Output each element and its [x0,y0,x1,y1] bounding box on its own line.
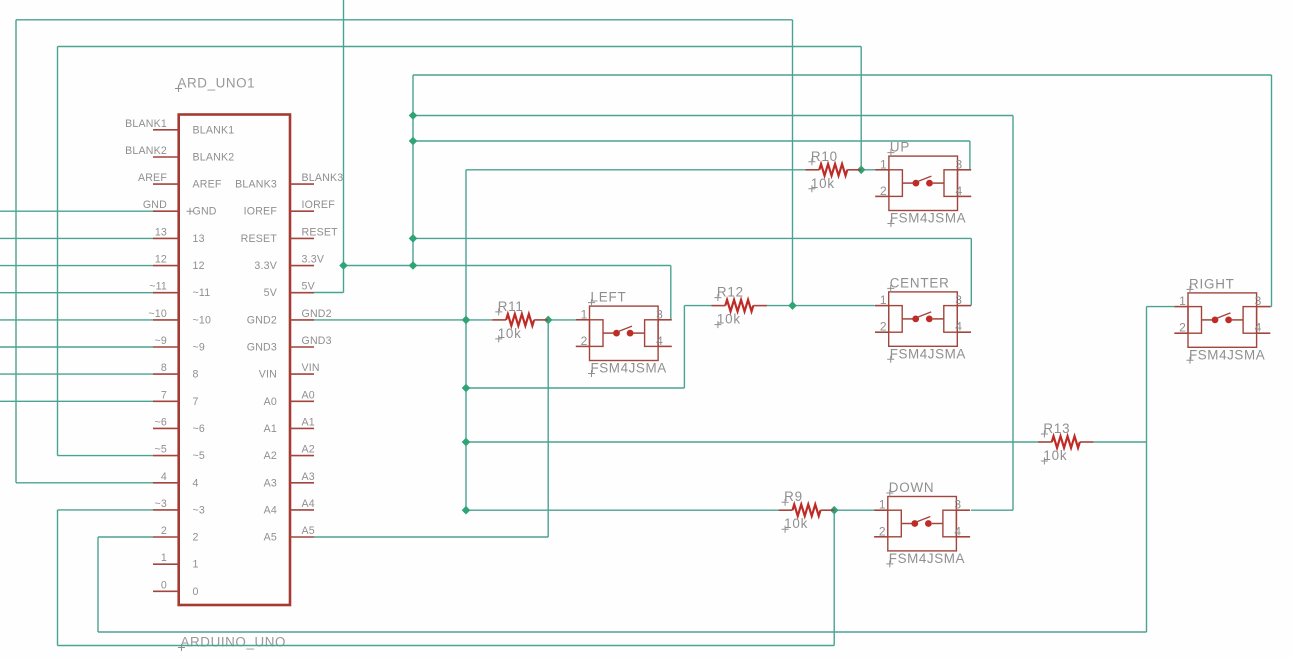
svg-text:4: 4 [656,334,663,348]
svg-text:A0: A0 [302,389,315,401]
part origin cross near GND pin [187,208,194,215]
label ARD_UNO1 [175,76,255,93]
svg-text:BLANK2: BLANK2 [193,152,235,164]
svg-text:GND2: GND2 [302,308,332,320]
pin numbers LEFT [581,307,663,348]
pin numbers RIGHT [1179,294,1261,335]
svg-text:IOREF: IOREF [302,199,336,211]
svg-text:12: 12 [193,260,205,272]
label ARDUINO_UNO [178,635,286,652]
label CENTER [887,275,949,292]
wire net CENTER: vertical x=16 [15,20,17,483]
pin 13 (left) stub [153,237,179,239]
svg-text:BLANK3: BLANK3 [302,172,344,184]
svg-text:R12: R12 [717,285,744,300]
label R11 [495,299,523,316]
IC ARD_UNO1 Arduino UNO symbol body [179,115,290,606]
junction 5V y238 [409,234,418,243]
svg-text:~5: ~5 [155,444,167,456]
switch RIGHT FSM4JSMA [1174,293,1270,347]
wire net 5V: vertical x=969.9 down to UP.3 [969,141,971,170]
svg-text:A2: A2 [302,444,315,456]
wire net CENTER: vertical x=792.5 down to R12/CENTER.1 [792,20,794,306]
svg-text:~9: ~9 [193,342,205,354]
wire net GND: horizontal y=388 [466,387,684,389]
pin 4 (left) stub [153,482,179,484]
wire net GND: horizontal y=442 to R13 [466,441,1038,443]
pin BLANK2 (left) stub [153,156,179,158]
svg-text:3.3V: 3.3V [254,260,277,272]
wire net GND: horizontal y=510.2 to R9 [466,509,779,511]
pin BLANK3 (right) stub [290,183,314,185]
wire net 5V: vertical x=1271.5 down to RIGHT.3 [1271,75,1273,307]
wire net RIGHT: R13 right to vertical x=1146.5 [1094,441,1147,443]
value 10k (R11) [495,326,522,343]
value 10k (R12) [714,312,741,329]
value 10k (R9) [782,516,809,533]
svg-text:4: 4 [956,184,963,198]
wire net UP: top horizontal y=46.5 [58,46,862,48]
pin 12 (left) stub [153,265,179,267]
svg-text:R10: R10 [811,149,838,164]
wire net 5V: horizontal y=75 to RIGHT.3 [413,74,1272,76]
wire net RIGHT: vertical x=98 down [97,537,99,632]
svg-text:8: 8 [193,369,199,381]
svg-text:DOWN: DOWN [889,480,935,495]
pin 8 (left) stub [153,373,179,375]
wire net GND: horizontal from pin GND2 [314,319,492,321]
svg-text:~3: ~3 [193,504,205,516]
wire net LEFT: horizontal into LEFT pin 1 [548,319,576,321]
junction 5V y141 [409,137,418,146]
wire net DOWN: vertical x=57.5 down [57,510,59,646]
svg-text:UP: UP [890,140,910,155]
junction 5V y265 [409,261,418,270]
wire net LEFT: vertical x=548.2 up to R11/LEFT.1 [547,320,549,537]
svg-text:RESET: RESET [302,226,339,238]
svg-text:7: 7 [161,389,167,401]
pin 0 (left) stub [153,590,179,592]
wire net UP: pin ~5 horizontal [58,455,154,457]
resistor R9 [779,504,835,516]
svg-text:FSM4JSMA: FSM4JSMA [591,361,667,376]
pin A3 (right) stub [290,482,314,484]
svg-text:4: 4 [193,477,199,489]
svg-text:LEFT: LEFT [591,290,627,305]
switch DOWN FSM4JSMA [874,497,970,551]
svg-text:~10: ~10 [193,314,212,326]
wire net DOWN: vertical x=834.2 up to R9/DOWN.1 [833,510,835,645]
svg-text:1: 1 [161,552,167,564]
svg-text:1: 1 [880,293,887,307]
svg-text:IOREF: IOREF [244,206,278,218]
junction CENTER net R12/CENTER.1 [788,301,797,310]
wire net DOWN: R9 right to DOWN pin 1 [834,509,874,511]
svg-text:VIN: VIN [259,369,277,381]
junction GND y510 [462,506,471,515]
svg-text:10k: 10k [811,176,835,191]
svg-text:2: 2 [193,532,199,544]
wire net D9 from left edge to pin ~9 [0,346,153,348]
wire net LEFT: pin A5 horizontal [314,536,548,538]
svg-text:4: 4 [955,320,962,334]
svg-text:GND3: GND3 [302,335,332,347]
svg-text:A5: A5 [264,532,277,544]
wire net DOWN: bottom horizontal y=645.5 [58,645,835,647]
svg-text:0: 0 [193,586,199,598]
svg-text:3.3V: 3.3V [302,254,325,266]
switch UP FSM4JSMA [875,156,971,210]
value FSM4JSMA (DOWN) [886,551,965,568]
pin GND (left) stub [153,210,179,212]
wire net D7 from left edge to pin 7 [0,400,153,402]
svg-text:~11: ~11 [149,281,167,293]
svg-text:12: 12 [155,254,167,266]
svg-text:10k: 10k [1043,448,1067,463]
pin 1 (left) stub [153,563,179,565]
junction 5V y115 [409,111,418,120]
junction GND at GND2 row [462,316,471,325]
wire net DOWN: pin ~3 horizontal [58,509,154,511]
svg-text:BLANK1: BLANK1 [125,118,167,130]
value FSM4JSMA (RIGHT) [1187,347,1266,364]
resistor R12 [711,300,767,312]
svg-text:R11: R11 [498,299,524,314]
wire net UP: vertical x=57.5 [57,47,59,456]
svg-text:CENTER: CENTER [890,275,950,290]
svg-text:A4: A4 [264,504,277,516]
resistor R10 [805,164,861,176]
svg-text:3: 3 [954,498,961,512]
resistor R13 [1038,436,1094,448]
wire net GND from left edge to pin GND [0,210,153,212]
svg-text:~3: ~3 [155,498,167,510]
svg-text:AREF: AREF [138,172,167,184]
svg-text:2: 2 [1179,321,1186,335]
svg-text:R13: R13 [1043,421,1070,436]
resistor R11 [492,314,548,326]
svg-text:1: 1 [879,498,886,512]
svg-text:R9: R9 [784,489,803,504]
svg-text:3: 3 [956,157,963,171]
pin numbers DOWN [879,498,961,539]
wire net GND: vertical rail x=466 [465,170,467,510]
svg-text:GND2: GND2 [247,314,277,326]
wire net CENTER: top horizontal y=19.8 [16,19,793,21]
wire net UP: R10 right to UP pin 1 [861,169,875,171]
wire net GND: horizontal y=305.6 to R12 [684,305,711,307]
svg-text:5V: 5V [264,287,278,299]
wire net 5V: horizontal y=238.4 to CENTER.3 [413,237,971,239]
wire net 5V: horizontal y=115.5 to DOWN.3 [413,115,1013,117]
svg-text:RESET: RESET [241,233,278,245]
label R10 [808,149,837,166]
svg-text:13: 13 [193,233,205,245]
svg-text:1: 1 [581,307,588,321]
pin ~5 (left) stub [153,455,179,457]
svg-text:2: 2 [581,334,588,348]
svg-text:FSM4JSMA: FSM4JSMA [890,346,966,361]
pin numbers UP [880,157,962,198]
svg-text:10k: 10k [717,312,741,327]
svg-text:ARDUINO_UNO: ARDUINO_UNO [181,635,287,650]
svg-text:10k: 10k [784,516,808,531]
svg-text:AREF: AREF [193,179,222,191]
svg-text:~10: ~10 [148,308,167,320]
svg-text:FSM4JSMA: FSM4JSMA [889,551,965,566]
pin ~10 (left) stub [153,319,179,321]
junction GND y388 [462,384,471,393]
pin A1 (right) stub [290,427,314,429]
label RIGHT [1187,276,1235,293]
pin ~3 (left) stub [153,509,179,511]
pin 3.3V (right) stub [290,265,314,267]
wire net RIGHT: vertical x=1146.5 up to RIGHT.1 [1146,307,1148,632]
value 10k (R13) [1041,448,1068,465]
label DOWN [886,480,934,497]
wire net RIGHT: horizontal into RIGHT pin 1 [1147,306,1175,308]
svg-text:2: 2 [879,524,886,538]
wire net CENTER: R12 right to junction [767,305,792,307]
pin A4 (right) stub [290,509,314,511]
wire net CENTER: pin 4 horizontal [16,482,153,484]
svg-text:4: 4 [161,471,167,483]
svg-text:A0: A0 [264,396,277,408]
pin BLANK1 (left) stub [153,129,179,131]
wire net 5V: vertical x=343.5 from top edge [343,0,345,293]
svg-text:VIN: VIN [302,362,320,374]
value FSM4JSMA (LEFT) [588,361,667,378]
svg-text:BLANK1: BLANK1 [193,124,235,136]
svg-text:A1: A1 [302,416,315,428]
svg-text:0: 0 [161,579,167,591]
wire net 5V: vertical x=413 [412,75,414,266]
svg-text:A3: A3 [302,471,315,483]
svg-text:BLANK2: BLANK2 [125,145,167,157]
svg-text:GND: GND [193,206,217,218]
svg-text:8: 8 [161,362,167,374]
svg-text:RIGHT: RIGHT [1189,276,1235,291]
wire net RIGHT: pin 2 horizontal [98,536,153,538]
wire net 5V: horizontal into DOWN pin 3 [971,509,1013,511]
pin A2 (right) stub [290,455,314,457]
wire net UP: vertical x=861.2 down to R10/UP.1 [860,47,862,170]
label R13 [1041,421,1070,438]
svg-text:A3: A3 [264,477,277,489]
pin AREF (left) stub [153,183,179,185]
switch LEFT FSM4JSMA [576,306,672,360]
wire net GND: horizontal y=169.8 to R10 [466,169,805,171]
svg-text:FSM4JSMA: FSM4JSMA [890,211,966,226]
label UP [887,140,910,157]
svg-text:4: 4 [954,524,961,538]
pin GND2 (right) stub [290,319,314,321]
junction UP net R10/UP.1 [857,166,866,175]
junction 5V at 5V riser [339,261,348,270]
wire net 5V: vertical x=1013 down to DOWN.3 [1012,116,1014,511]
wire net 5V: horizontal y=265.5 [344,265,671,267]
wire net 5V: horizontal into pin 5V [314,292,344,294]
svg-text:~5: ~5 [193,450,205,462]
svg-text:7: 7 [193,396,199,408]
svg-text:2: 2 [880,184,887,198]
pin RESET (right) stub [290,237,314,239]
pin A5 (right) stub [290,536,314,538]
svg-text:2: 2 [880,320,887,334]
svg-text:A4: A4 [302,498,315,510]
pin GND3 (right) stub [290,346,314,348]
svg-text:~6: ~6 [155,416,167,428]
svg-text:FSM4JSMA: FSM4JSMA [1189,347,1265,362]
pin 7 (left) stub [153,400,179,402]
svg-text:4: 4 [1255,321,1262,335]
label LEFT [588,290,626,307]
wire net D8 from left edge to pin 8 [0,373,153,375]
pin A0 (right) stub [290,400,314,402]
wire net GND: vertical x=684.4 [683,306,685,388]
junction GND y442 [462,438,471,447]
svg-text:GND: GND [143,199,167,211]
svg-text:~9: ~9 [155,335,167,347]
svg-text:ARD_UNO1: ARD_UNO1 [178,76,256,91]
svg-text:~11: ~11 [193,287,211,299]
value FSM4JSMA (UP) [887,211,966,228]
pin 2 (left) stub [153,536,179,538]
svg-text:A2: A2 [264,450,277,462]
wire net 5V: horizontal y=141 to UP.3 [413,140,970,142]
wire net RIGHT: bottom horizontal y=632 [98,631,1147,633]
value 10k (R10) [808,176,835,193]
svg-text:2: 2 [161,525,167,537]
pin ~11 (left) stub [153,292,179,294]
svg-text:~6: ~6 [193,423,205,435]
pin 5V (right) stub [290,292,314,294]
svg-text:5V: 5V [302,281,316,293]
wire net D12 from left edge to pin 12 [0,265,153,267]
wire net 5V: vertical x=670.8 down to LEFT.3 [670,266,672,320]
svg-text:10k: 10k [498,326,522,341]
svg-text:BLANK3: BLANK3 [235,179,277,191]
pin IOREF (right) stub [290,210,314,212]
svg-text:A5: A5 [302,525,315,537]
svg-text:3: 3 [955,293,962,307]
pin ~9 (left) stub [153,346,179,348]
label R9 [782,489,803,506]
svg-text:1: 1 [880,157,887,171]
svg-text:A1: A1 [264,423,277,435]
wire net D13 from left edge to pin 13 [0,237,153,239]
svg-text:1: 1 [1179,294,1186,308]
switch CENTER FSM4JSMA [875,292,971,346]
svg-text:GND3: GND3 [247,342,277,354]
junction DOWN net R9/DOWN.1 [830,506,839,515]
svg-text:1: 1 [193,559,199,571]
svg-text:3: 3 [1255,294,1262,308]
wire net CENTER: junction to CENTER pin 1 [793,305,875,307]
wire net 5V: stub into RIGHT pin 3 [1270,306,1272,308]
junction LEFT net R11/LEFT.1 [544,316,553,325]
wire net D10 from left edge to pin ~10 [0,319,153,321]
wire net D11 from left edge to pin ~11 [0,292,153,294]
wire net 5V: vertical x=971.3 down to CENTER.3 [970,238,972,305]
pin VIN (right) stub [290,373,314,375]
svg-text:3: 3 [656,307,663,321]
pin numbers CENTER [880,293,962,334]
value FSM4JSMA (CENTER) [887,346,966,363]
pin ~6 (left) stub [153,427,179,429]
svg-text:13: 13 [155,226,167,238]
label R12 [714,285,743,302]
